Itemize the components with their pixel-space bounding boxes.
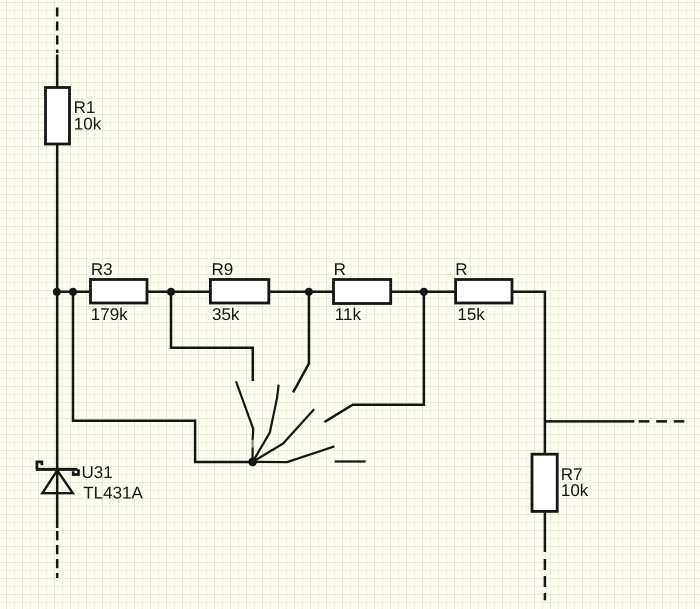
wire: dashed lead below U31 xyxy=(56,531,59,578)
svg-text:35k: 35k xyxy=(212,305,240,324)
svg-text:R: R xyxy=(455,260,467,279)
switch SW1 open contact stub xyxy=(335,460,366,462)
wire: vertical into R1 xyxy=(56,55,59,89)
diode U31 cathode bar xyxy=(36,468,78,471)
wire: right branch dashed continuation xyxy=(639,420,685,423)
diode U31 cathode right hook xyxy=(73,469,78,474)
wire: right branch solid xyxy=(545,420,634,423)
wire: R(11k) to R(15k) xyxy=(391,291,456,294)
wire: R1 bottom down through node to U31 xyxy=(56,144,59,493)
svg-text:179k: 179k xyxy=(91,305,128,324)
svg-text:TL431A: TL431A xyxy=(83,483,143,502)
wire: contact stub from node D xyxy=(293,292,309,393)
resistor R3 xyxy=(91,280,148,304)
switch SW1 throw line b xyxy=(253,385,279,462)
node E (tap R11k/R15k) xyxy=(420,288,428,296)
wire: dashed lead below R7 xyxy=(544,559,547,600)
svg-text:10k: 10k xyxy=(561,481,589,500)
switch SW1 throw line c xyxy=(253,409,315,462)
diode U31 cathode left hook xyxy=(37,462,42,470)
node A (main junction) xyxy=(53,288,61,296)
node F (switch common point) xyxy=(248,458,257,467)
svg-text:R9: R9 xyxy=(212,260,234,279)
wire: below U31 solid xyxy=(56,492,59,528)
svg-text:R3: R3 xyxy=(91,260,113,279)
wire: R9 to R(11k) xyxy=(269,291,334,294)
resistor R9 xyxy=(210,280,268,304)
svg-text:R: R xyxy=(334,260,346,279)
wire: top dashed lead into R1 xyxy=(56,8,59,54)
wire: switch common from node B xyxy=(73,292,249,462)
wire: R3 to R9 xyxy=(147,291,210,294)
svg-text:15k: 15k xyxy=(457,305,485,324)
resistor R7 xyxy=(532,454,557,511)
wire: contact stub from node C xyxy=(171,292,253,381)
resistor R1 xyxy=(46,88,70,145)
node B (switch common tap) xyxy=(69,288,77,296)
switch SW1 throw line a faded segment xyxy=(252,440,254,448)
resistor R (15k) xyxy=(456,280,512,304)
svg-text:10k: 10k xyxy=(74,115,102,134)
switch SW1 throw line a xyxy=(236,381,253,440)
svg-text:11k: 11k xyxy=(335,305,362,324)
switch SW1 wiper arm xyxy=(253,446,335,462)
svg-text:U31: U31 xyxy=(82,463,113,482)
wire: below R7 xyxy=(544,511,547,552)
node C (tap R3/R9) xyxy=(167,288,175,296)
wire: horizontal bus left segment xyxy=(57,291,90,294)
switch SW1 throw line a lower segment xyxy=(252,448,254,462)
wire: R(15k) to right vertical xyxy=(512,292,545,454)
resistor R (11k) xyxy=(334,280,391,304)
node D (tap R9/R11k) xyxy=(305,288,313,296)
wire: contact stub from node E xyxy=(324,292,424,422)
diode U31 anode triangle xyxy=(42,470,72,493)
